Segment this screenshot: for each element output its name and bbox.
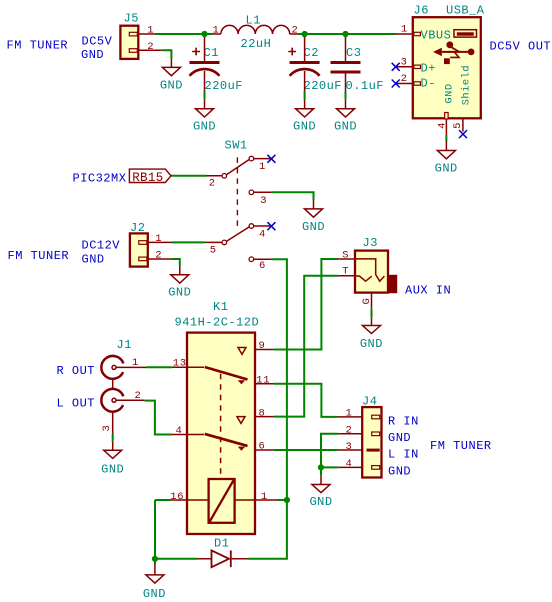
- svg-text:Shield: Shield: [460, 65, 472, 105]
- svg-text:GND: GND: [302, 220, 325, 234]
- svg-text:GND: GND: [160, 78, 183, 92]
- svg-text:6: 6: [259, 260, 266, 272]
- svg-text:1: 1: [213, 25, 220, 37]
- svg-text:8: 8: [259, 407, 266, 419]
- svg-text:C1: C1: [204, 46, 219, 60]
- svg-text:GND: GND: [388, 431, 411, 445]
- svg-text:FM TUNER: FM TUNER: [8, 249, 70, 263]
- svg-text:6: 6: [259, 440, 266, 452]
- svg-text:2: 2: [155, 250, 162, 262]
- svg-text:GND: GND: [309, 495, 332, 509]
- svg-text:AUX IN: AUX IN: [405, 283, 451, 297]
- svg-text:4: 4: [437, 122, 449, 129]
- svg-text:2: 2: [401, 73, 408, 85]
- svg-text:USB_A: USB_A: [446, 3, 485, 17]
- svg-text:220uF: 220uF: [205, 79, 244, 93]
- svg-text:4: 4: [346, 458, 353, 470]
- svg-text:SW1: SW1: [225, 138, 248, 152]
- svg-text:FM TUNER: FM TUNER: [7, 39, 69, 53]
- svg-text:VBUS: VBUS: [421, 28, 452, 42]
- svg-text:1: 1: [155, 233, 162, 245]
- svg-text:941H-2C-12D: 941H-2C-12D: [175, 316, 260, 330]
- svg-text:1: 1: [261, 491, 268, 503]
- svg-text:D+: D+: [421, 62, 436, 76]
- svg-text:J1: J1: [117, 338, 132, 352]
- svg-text:2: 2: [209, 178, 216, 190]
- svg-text:1: 1: [259, 161, 266, 173]
- svg-text:4: 4: [176, 425, 183, 437]
- svg-text:3: 3: [101, 425, 113, 432]
- svg-text:J5: J5: [124, 12, 139, 26]
- svg-text:22uH: 22uH: [241, 37, 272, 51]
- svg-text:PIC32MX: PIC32MX: [73, 171, 127, 185]
- svg-text:K1: K1: [213, 300, 228, 314]
- svg-text:1: 1: [346, 408, 353, 420]
- svg-text:D1: D1: [214, 537, 229, 551]
- svg-text:GND: GND: [334, 120, 357, 134]
- svg-text:2: 2: [346, 425, 353, 437]
- svg-text:L OUT: L OUT: [57, 397, 96, 411]
- svg-text:GND: GND: [360, 337, 383, 351]
- svg-text:C3: C3: [346, 46, 361, 60]
- svg-text:L IN: L IN: [388, 448, 419, 462]
- svg-text:5: 5: [210, 245, 217, 257]
- svg-text:GND: GND: [168, 286, 191, 300]
- svg-text:T: T: [342, 266, 349, 278]
- svg-text:1: 1: [132, 357, 139, 369]
- svg-text:GND: GND: [444, 83, 456, 103]
- svg-text:3: 3: [401, 56, 408, 68]
- svg-text:GND: GND: [193, 120, 216, 134]
- svg-text:GND: GND: [81, 48, 104, 62]
- svg-text:3: 3: [260, 195, 267, 207]
- svg-text:DC5V: DC5V: [82, 35, 113, 49]
- svg-text:2: 2: [147, 41, 154, 53]
- svg-text:J3: J3: [363, 236, 378, 250]
- svg-text:GND: GND: [293, 120, 316, 134]
- svg-text:GND: GND: [143, 587, 166, 601]
- svg-text:RB15: RB15: [132, 171, 163, 185]
- svg-text:16: 16: [170, 491, 184, 503]
- svg-text:11: 11: [256, 375, 270, 387]
- svg-text:J6: J6: [414, 3, 429, 17]
- svg-text:2: 2: [292, 25, 299, 37]
- svg-text:0.1uF: 0.1uF: [346, 79, 385, 93]
- svg-text:D-: D-: [421, 77, 436, 91]
- svg-text:G: G: [361, 298, 373, 305]
- svg-text:3: 3: [346, 441, 353, 453]
- svg-text:13: 13: [173, 357, 187, 369]
- svg-text:GND: GND: [101, 463, 124, 477]
- svg-text:9: 9: [259, 340, 266, 352]
- svg-text:2: 2: [135, 390, 142, 402]
- svg-text:C2: C2: [304, 46, 319, 60]
- svg-text:R IN: R IN: [388, 415, 419, 429]
- svg-text:GND: GND: [388, 465, 411, 479]
- svg-text:GND: GND: [82, 253, 105, 267]
- svg-text:1: 1: [401, 24, 408, 36]
- svg-text:GND: GND: [435, 162, 458, 176]
- svg-text:220uF: 220uF: [304, 79, 343, 93]
- svg-text:FM TUNER: FM TUNER: [430, 439, 492, 453]
- svg-text:4: 4: [259, 229, 266, 241]
- svg-text:S: S: [342, 249, 349, 261]
- svg-text:1: 1: [147, 25, 154, 37]
- svg-text:DC5V OUT: DC5V OUT: [490, 39, 552, 53]
- svg-text:5: 5: [452, 122, 464, 129]
- svg-text:DC12V: DC12V: [82, 239, 121, 253]
- svg-text:R OUT: R OUT: [57, 364, 96, 378]
